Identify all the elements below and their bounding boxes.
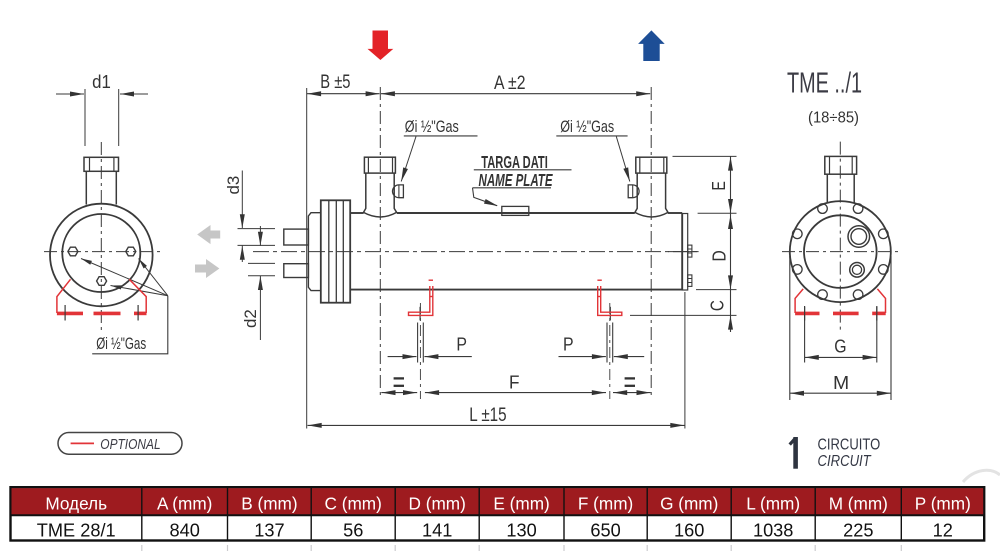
svg-text:D: D [709, 250, 730, 261]
svg-text:141: 141 [422, 520, 452, 540]
svg-text:C: C [707, 300, 728, 311]
svg-text:130: 130 [506, 520, 536, 540]
svg-text:12: 12 [933, 520, 953, 540]
svg-text:160: 160 [674, 520, 704, 540]
svg-text:G (mm): G (mm) [660, 493, 718, 513]
svg-text:P: P [563, 334, 574, 355]
svg-text:M (mm): M (mm) [829, 493, 888, 513]
svg-text:A (mm): A (mm) [157, 493, 212, 513]
svg-text:TME 28/1: TME 28/1 [37, 520, 116, 540]
svg-text:Модель: Модель [45, 493, 107, 513]
svg-text:840: 840 [170, 520, 200, 540]
svg-text:OPTIONAL: OPTIONAL [100, 436, 160, 453]
svg-text:d2: d2 [241, 309, 260, 328]
svg-text:A ±2: A ±2 [494, 72, 526, 94]
svg-text:L (mm): L (mm) [746, 493, 800, 513]
svg-text:d3: d3 [224, 176, 243, 195]
svg-text:1038: 1038 [753, 520, 793, 540]
svg-text:P: P [456, 334, 467, 355]
svg-text:NAME PLATE: NAME PLATE [479, 170, 554, 190]
svg-text:TME ../1: TME ../1 [787, 68, 862, 100]
svg-text:G: G [834, 337, 846, 357]
svg-text:CIRCUITO: CIRCUITO [818, 437, 881, 454]
svg-text:d1: d1 [92, 71, 111, 92]
svg-text:L ±15: L ±15 [469, 404, 507, 426]
svg-text:F: F [509, 372, 520, 393]
svg-text:P (mm): P (mm) [915, 493, 971, 513]
svg-text:E (mm): E (mm) [493, 493, 549, 513]
svg-text:56: 56 [343, 520, 363, 540]
svg-text:C (mm): C (mm) [325, 493, 382, 513]
svg-text:225: 225 [843, 520, 873, 540]
svg-text:B ±5: B ±5 [320, 71, 350, 93]
svg-text:M: M [833, 372, 849, 393]
svg-text:F (mm): F (mm) [578, 493, 633, 513]
svg-text:B (mm): B (mm) [241, 493, 297, 513]
svg-text:137: 137 [254, 520, 284, 540]
svg-text:CIRCUIT: CIRCUIT [818, 453, 872, 470]
svg-text:D (mm): D (mm) [409, 493, 466, 513]
svg-text:TARGA DATI: TARGA DATI [481, 152, 548, 172]
svg-text:Øi ½"Gas: Øi ½"Gas [405, 118, 459, 136]
svg-text:E: E [708, 181, 729, 190]
svg-text:Øi ½"Gas: Øi ½"Gas [560, 118, 614, 136]
svg-text:(18÷85): (18÷85) [808, 110, 859, 127]
svg-text:Øi ½"Gas: Øi ½"Gas [96, 335, 146, 353]
svg-text:650: 650 [590, 520, 620, 540]
